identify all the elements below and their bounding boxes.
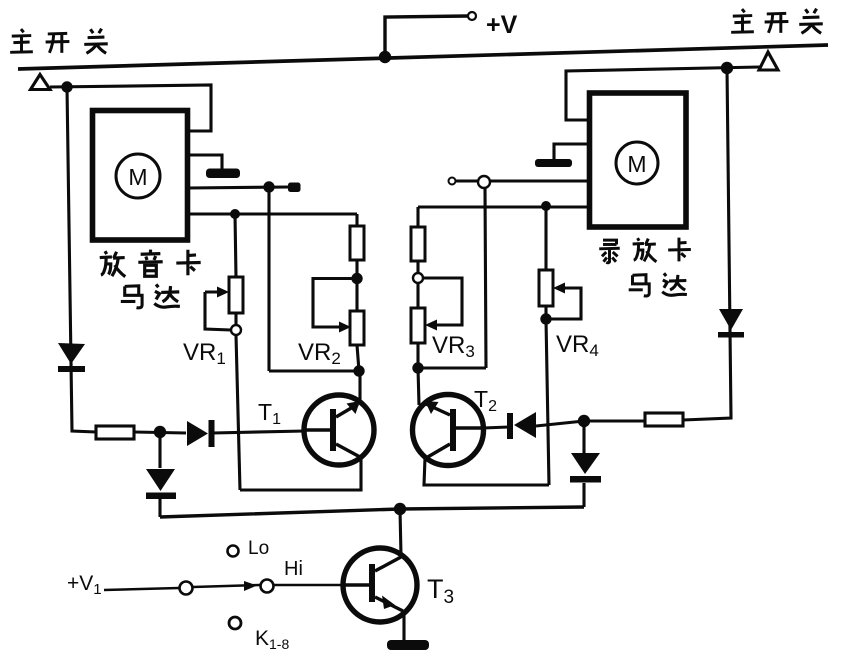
diode D-base-right (points left) (507, 412, 536, 439)
wire: right node down to lower diode (582, 421, 585, 456)
terminal circle at +V stub end (468, 12, 476, 20)
potentiometer VR3 body (411, 308, 425, 343)
node: +V tap junction on rail (379, 51, 391, 63)
node T3 collector on bottom rail (394, 503, 406, 515)
switch contact triangle (left) (31, 75, 51, 90)
wire +V tap (385, 16, 468, 57)
motor M1 box (93, 111, 188, 241)
ground (T3 emitter) (387, 640, 429, 650)
node T2 collector (412, 362, 423, 373)
wire: right vertical drop (683, 68, 731, 420)
wire T2 base (483, 427, 509, 428)
VR1 wiper loop with arrow (205, 292, 231, 330)
wire T1 emitter down/left rail (240, 457, 361, 490)
label 放音卡 马达 (left motor) (100, 250, 201, 308)
resistor R-base-right (horizontal) (584, 419, 645, 422)
VR3 wiper loop with arrow (423, 278, 462, 325)
bottom rail (160, 507, 584, 517)
wire: VR3 bottom rail (418, 366, 486, 369)
wire T2 collector down (418, 368, 419, 405)
VR2 wiper loop with arrow (313, 279, 357, 328)
diode D-low-right (points down) (570, 453, 601, 483)
wire: diode to T1 base (213, 431, 305, 433)
node: left branch junction (61, 81, 72, 92)
net +V main rail (18, 45, 828, 69)
wire from +V1 (104, 588, 179, 590)
wire T3 emitter to ground (402, 612, 405, 642)
switch pole circle Hi (261, 580, 274, 593)
wire M1 upper tap with arrow stub (188, 187, 290, 188)
wire with wiper arrow (193, 585, 260, 587)
wire VR1 bottom to emitter rail (236, 335, 240, 490)
potentiometer VR4 body (539, 270, 553, 306)
motor M2 box (590, 93, 687, 227)
wire: diode to right node (536, 421, 584, 426)
transistor T2 (413, 395, 484, 466)
potentiometer VR1 column wire (235, 214, 236, 277)
wire: left switch to motor M1 top (50, 85, 211, 131)
svg-text:M: M (128, 164, 147, 190)
label 主开关 (top left) (10, 29, 108, 54)
VR4 wiper loop with arrow (551, 288, 581, 319)
wire: node down to lower diode (158, 432, 161, 468)
svg-text:M: M (627, 151, 646, 177)
wire: lower diode to bottom rail (158, 496, 161, 517)
potentiometer VR4 column wire (544, 206, 547, 270)
VR3 top terminal circle (413, 273, 423, 283)
diode D-left-edge (58, 343, 85, 372)
node T1 collector (353, 365, 364, 376)
switch pole circle 1 (180, 582, 193, 595)
wire: mid-left vertical (267, 187, 270, 371)
node VR1 top (230, 209, 240, 219)
switch contact Lo (228, 546, 239, 557)
switch contact triangle (right) (759, 52, 778, 70)
wire: lower diode to bottom rail (582, 483, 585, 507)
transistor T1 (304, 395, 374, 465)
wire M2 upper tap with stub terminal (455, 179, 589, 182)
connector circle on M2 upper tap (478, 176, 490, 188)
svg-text:Hi: Hi (284, 558, 303, 580)
potentiometer VR2 body (350, 311, 364, 345)
wire M1 lower tap (188, 212, 357, 215)
resistor R-base-left (horizontal) (96, 426, 134, 439)
ground (motor M1) (188, 155, 240, 178)
node VR4 top (541, 201, 551, 211)
VR1 bottom terminal circle (231, 325, 241, 335)
resistor R-right (fixed, above VR3) (416, 207, 419, 227)
resistor R-left (fixed, above VR2) (355, 214, 358, 226)
node VR4 bottom (540, 313, 551, 324)
wire: resistor to node (134, 432, 186, 433)
wire T1 collector up (358, 371, 361, 403)
svg-text:Lo: Lo (248, 538, 269, 559)
diode D-base-left (points right) (187, 420, 215, 447)
node left base junction (154, 426, 166, 438)
motor M2 circle symbol (616, 142, 658, 184)
diode D-low-left (points down) (146, 469, 176, 499)
transistor T3 (343, 509, 417, 622)
potentiometer VR1 body (229, 277, 243, 313)
svg-text:+V: +V (486, 11, 518, 39)
ground (motor M2) (535, 144, 589, 167)
switch contact K1-8 (229, 617, 241, 629)
wire: left vertical drop (67, 87, 96, 432)
node: right branch junction (721, 62, 733, 74)
wire: mid-right vertical (485, 188, 486, 368)
wire: VR2 bottom rail (269, 369, 359, 372)
node between R-left and VR2 (351, 273, 362, 284)
label 主开关 (top right) (731, 9, 823, 34)
wire T2 emitter down/right rail (424, 458, 549, 485)
node right base junction (578, 415, 590, 427)
wire: right switch to motor M2 top (566, 67, 760, 120)
node on M1 upper tap (263, 181, 274, 192)
diode D-right-edge (points down) (718, 309, 744, 338)
motor M1 circle symbol (116, 154, 160, 198)
wire VR4 bottom down to emitter rail (546, 319, 549, 485)
wire M2 lower tap (418, 205, 589, 208)
wire to T3 base (273, 584, 343, 587)
label 录放卡 马达 (right motor) (599, 238, 691, 296)
